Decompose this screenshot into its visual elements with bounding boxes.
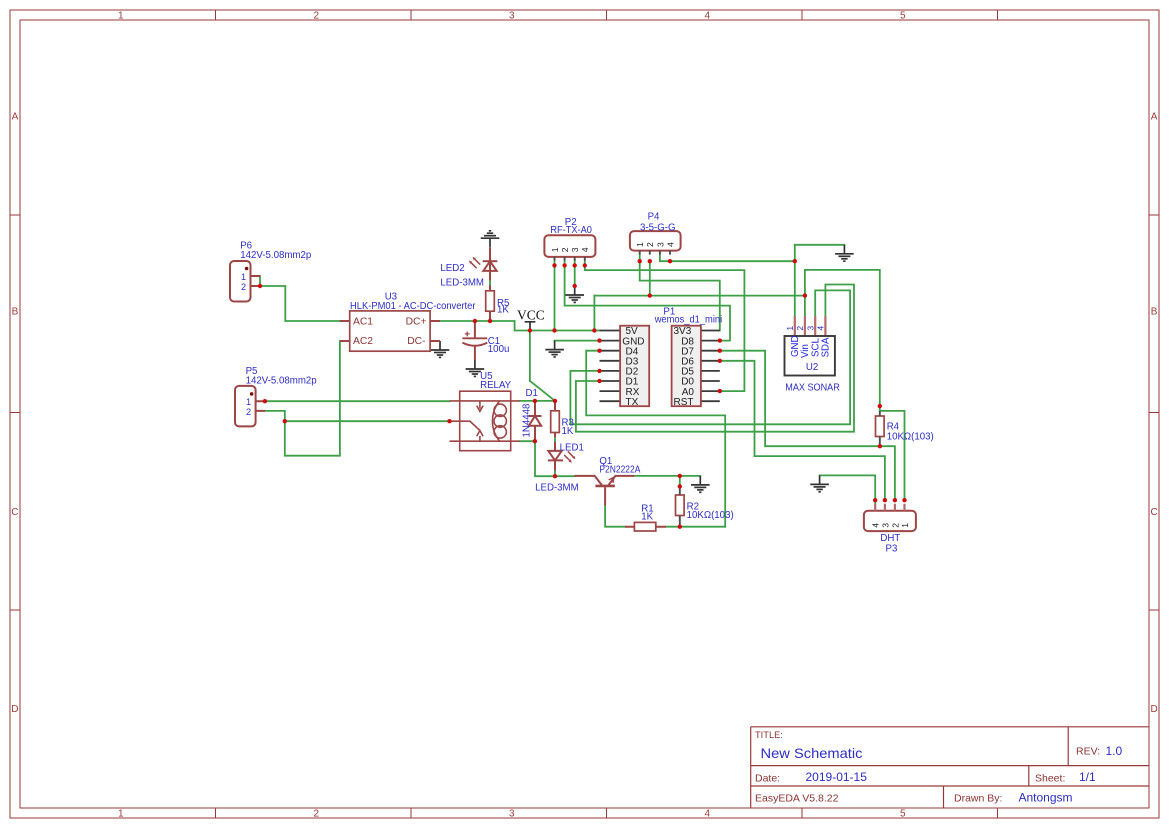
svg-text:MAX SONAR: MAX SONAR — [785, 382, 840, 393]
svg-text:1: 1 — [246, 397, 251, 407]
svg-text:2: 2 — [890, 523, 900, 528]
svg-text:AC2: AC2 — [353, 336, 373, 347]
svg-text:4: 4 — [705, 11, 711, 22]
svg-text:U2: U2 — [806, 362, 818, 373]
svg-text:DC+: DC+ — [406, 316, 427, 327]
svg-text:4: 4 — [705, 808, 711, 819]
svg-text:3: 3 — [805, 326, 815, 331]
svg-text:VCC: VCC — [517, 308, 545, 323]
svg-text:2: 2 — [241, 282, 246, 292]
svg-text:HLK-PM01 - AC-DC-converter: HLK-PM01 - AC-DC-converter — [350, 301, 476, 312]
svg-text:2: 2 — [314, 11, 320, 22]
svg-text:Sheet:: Sheet: — [1035, 773, 1065, 785]
svg-text:Antongsm: Antongsm — [1019, 791, 1073, 805]
svg-text:AC1: AC1 — [353, 316, 373, 327]
svg-text:100u: 100u — [488, 344, 510, 355]
svg-text:2: 2 — [314, 808, 320, 819]
svg-text:2019-01-15: 2019-01-15 — [806, 770, 868, 784]
svg-text:LED2: LED2 — [440, 263, 464, 274]
svg-text:2: 2 — [645, 242, 655, 247]
svg-text:B: B — [12, 307, 19, 318]
svg-text:1: 1 — [550, 247, 560, 252]
svg-text:3-5-G-G: 3-5-G-G — [640, 222, 676, 233]
svg-text:P3: P3 — [886, 543, 898, 554]
svg-text:C: C — [11, 507, 18, 518]
svg-text:1: 1 — [118, 808, 124, 819]
svg-text:1.0: 1.0 — [1106, 744, 1123, 758]
svg-text:RST: RST — [674, 397, 694, 408]
svg-text:3: 3 — [655, 242, 665, 247]
svg-text:B: B — [1151, 307, 1158, 318]
svg-text:A: A — [12, 111, 19, 122]
svg-text:1: 1 — [900, 523, 910, 528]
svg-text:1: 1 — [118, 11, 124, 22]
svg-text:D: D — [1150, 704, 1157, 715]
svg-text:A: A — [1151, 111, 1158, 122]
svg-text:1N4448: 1N4448 — [522, 404, 533, 438]
svg-text:SDA: SDA — [821, 337, 832, 357]
svg-text:4: 4 — [871, 523, 881, 528]
svg-text:2: 2 — [795, 326, 805, 331]
svg-text:5: 5 — [900, 808, 906, 819]
svg-text:4: 4 — [580, 247, 590, 252]
svg-text:EasyEDA V5.8.22: EasyEDA V5.8.22 — [755, 793, 839, 805]
svg-text:P2N2222A: P2N2222A — [599, 465, 640, 476]
svg-text:D1: D1 — [526, 388, 538, 399]
svg-text:DC-: DC- — [407, 336, 425, 347]
svg-text:LED-3MM: LED-3MM — [440, 277, 484, 288]
svg-text:3: 3 — [509, 11, 515, 22]
svg-text:3: 3 — [880, 523, 890, 528]
svg-text:1/1: 1/1 — [1079, 770, 1096, 784]
svg-text:5: 5 — [900, 11, 906, 22]
svg-text:TX: TX — [626, 397, 639, 408]
svg-text:1: 1 — [635, 242, 645, 247]
svg-text:2: 2 — [560, 247, 570, 252]
svg-text:D: D — [11, 704, 18, 715]
svg-text:10KΩ(103): 10KΩ(103) — [687, 510, 734, 521]
svg-text:New Schematic: New Schematic — [761, 745, 863, 761]
svg-text:142V-5.08mm2p: 142V-5.08mm2p — [240, 250, 311, 261]
svg-text:4: 4 — [816, 326, 826, 331]
svg-text:wemos_d1_mini: wemos_d1_mini — [654, 315, 722, 326]
svg-text:REV:: REV: — [1076, 746, 1100, 758]
svg-text:C: C — [1150, 507, 1157, 518]
svg-text:TITLE:: TITLE: — [755, 730, 783, 740]
svg-text:RELAY: RELAY — [480, 380, 512, 391]
svg-text:Drawn By:: Drawn By: — [954, 793, 1002, 805]
svg-text:P4: P4 — [648, 211, 660, 222]
svg-text:RF-TX-A0: RF-TX-A0 — [550, 225, 592, 236]
svg-text:LED1: LED1 — [560, 442, 584, 453]
svg-text:LED-3MM: LED-3MM — [535, 482, 579, 493]
svg-text:1: 1 — [785, 326, 795, 331]
svg-text:1K: 1K — [641, 512, 653, 523]
svg-text:Date:: Date: — [755, 773, 780, 785]
svg-text:142V-5.08mm2p: 142V-5.08mm2p — [246, 375, 317, 386]
svg-text:1K: 1K — [497, 305, 509, 316]
svg-text:10KΩ(103): 10KΩ(103) — [887, 432, 934, 443]
svg-text:2: 2 — [246, 407, 251, 417]
svg-text:1: 1 — [241, 272, 246, 282]
svg-text:3: 3 — [570, 247, 580, 252]
svg-text:1K: 1K — [562, 426, 574, 437]
svg-text:4: 4 — [665, 242, 675, 247]
svg-text:3: 3 — [509, 808, 515, 819]
